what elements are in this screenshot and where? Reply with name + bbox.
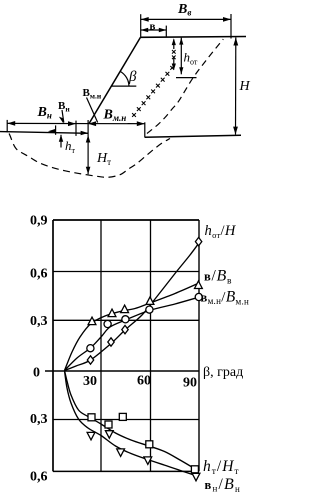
bottom line -0,6 — [53, 470, 199, 472]
B_v left tick (crest vertical) — [140, 14, 142, 37]
tick at x=145 below crest — [144, 122, 146, 137]
x axis (0) — [45, 370, 199, 372]
lower ground line (right) — [145, 135, 241, 137]
H dimension vertical — [235, 38, 237, 135]
v dim arrows — [141, 28, 149, 33]
tick/dim vertical at x=88 (H_t) — [87, 120, 89, 174]
svg-text:H: H — [239, 79, 251, 94]
diamonds h_ot/H — [87, 356, 93, 364]
H dim arrows — [233, 38, 238, 46]
pit bottom / dimension line A — [7, 122, 145, 124]
svg-text:0,6: 0,6 — [30, 470, 48, 485]
gridline x=60 — [150, 220, 152, 471]
curve v_m.n/B_m.n — [65, 297, 199, 370]
v dimension line — [141, 29, 167, 31]
beta angle arc — [120, 71, 129, 86]
upper ground surface — [141, 36, 247, 39]
squares h_t/H_t — [88, 414, 95, 421]
B_v dim arrows — [141, 17, 149, 22]
svg-text:0: 0 — [33, 366, 40, 381]
top line 0,9 — [53, 219, 199, 221]
svg-text:0,9: 0,9 — [30, 214, 48, 229]
svg-text:в: в — [150, 21, 156, 33]
gridline 0,3 — [53, 319, 199, 321]
leader small B_n label — [62, 110, 64, 123]
tick at x=76 (trench left wall) — [75, 121, 77, 136]
tick at x=48.3 on line B — [55, 125, 57, 134]
h_t leader arrowheads — [59, 117, 64, 124]
svg-text:hот/H: hот/H — [205, 223, 237, 240]
svg-text:90: 90 — [183, 376, 197, 391]
h_ot dim arrows — [172, 38, 176, 45]
B_v dimension line — [141, 18, 231, 20]
tick at x=3 on line A — [6, 120, 8, 132]
right border — [198, 220, 200, 471]
leader from B_m.n label — [87, 98, 98, 123]
svg-text:0,6: 0,6 — [30, 267, 48, 282]
lower ground line B (left) — [0, 132, 88, 134]
y axis — [52, 220, 54, 471]
curve v/B_v — [65, 283, 199, 370]
gridline -0,3 — [53, 419, 199, 421]
slope face — [89, 37, 141, 123]
svg-text:60: 60 — [137, 374, 151, 389]
h_ot dimension vertical (right) — [180, 38, 182, 75]
B_v right tick — [230, 14, 232, 39]
svg-text:hт/Hт: hт/Hт — [203, 458, 240, 477]
svg-text:β: β — [128, 69, 137, 85]
beta horizontal reference — [111, 85, 136, 87]
line B span arrows — [48, 129, 56, 134]
H_t dim arrows on x=88 — [86, 135, 91, 143]
dashed slip line upper — [147, 39, 223, 133]
triangles down v_n/B_n — [87, 432, 95, 440]
v right tick — [165, 26, 167, 38]
data markers — [87, 237, 203, 480]
gridline 0,6 — [53, 271, 199, 273]
h_ot bottom reference tick — [176, 77, 197, 79]
svg-text:0,3: 0,3 — [30, 314, 48, 329]
curve v_n/B_n — [65, 371, 196, 476]
circles v_m.n/B_m.n — [87, 345, 94, 352]
curve h_t/H_t — [65, 371, 195, 469]
h_ot dimension vertical (left, broken with x marks) — [173, 40, 175, 69]
svg-text:30: 30 — [83, 374, 97, 389]
svg-text:β, град: β, град — [203, 365, 243, 380]
triangles up v/B_v — [88, 317, 96, 325]
arrowheads — [7, 17, 238, 174]
dashed slip surface arc — [9, 134, 170, 178]
svg-text:0,3: 0,3 — [30, 412, 48, 427]
line A span arrows — [7, 121, 15, 126]
curve h_ot/H — [65, 244, 199, 371]
line of x crosses — [132, 66, 174, 117]
h_t lower leader arrow shaft — [60, 135, 62, 148]
gridline x=30 — [100, 220, 102, 471]
